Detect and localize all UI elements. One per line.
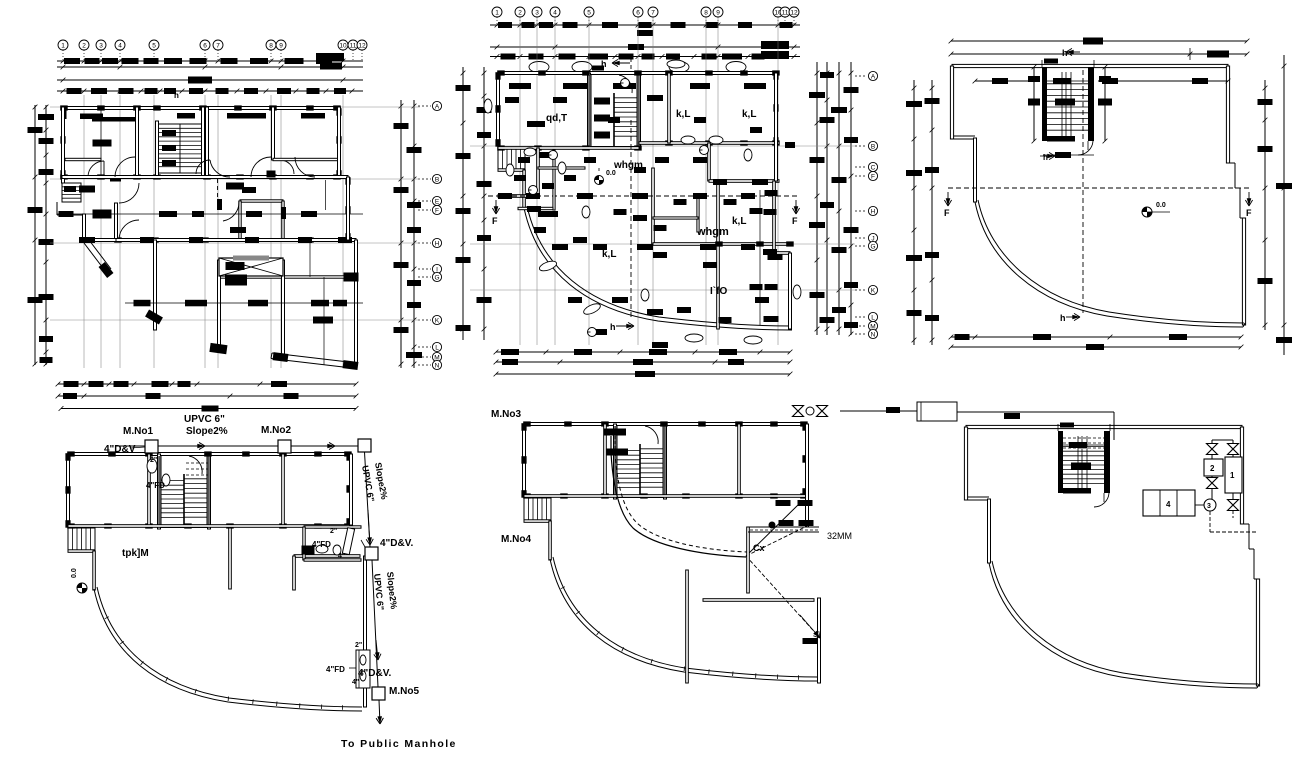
svg-text:A: A	[435, 103, 440, 110]
plan A top room door arcs	[88, 161, 104, 177]
building entry stair	[498, 147, 525, 169]
plan D drain pipe to M5	[372, 560, 378, 687]
svg-text:4": 4"	[352, 679, 359, 686]
plan A entrance blob cluster	[79, 186, 95, 193]
plan D vertical drain pipe right	[365, 452, 371, 547]
svg-text:G: G	[870, 243, 875, 250]
plan A entry stair left	[62, 183, 81, 202]
manhole M.No3 top-right of plan D	[358, 439, 371, 452]
svg-text:G: G	[434, 274, 439, 281]
svg-text:F: F	[871, 173, 875, 180]
svg-text:4": 4"	[338, 553, 345, 560]
plan A right wall upper	[347, 177, 350, 240]
plan A lower-left diagonal stair	[84, 243, 106, 272]
svg-text:F: F	[792, 216, 798, 226]
plan A interior wall x137	[136, 107, 139, 177]
svg-text:2": 2"	[330, 528, 337, 535]
plan B top balcony fixtures	[529, 62, 549, 73]
svg-text:B: B	[871, 143, 875, 150]
building left lower wall	[67, 550, 69, 551]
svg-text:M.No2: M.No2	[261, 425, 291, 436]
plan A wall y240 with blobs	[116, 239, 356, 242]
svg-text:F: F	[435, 207, 439, 214]
svg-text:H: H	[435, 240, 440, 247]
plan B section line F-F dashed	[488, 195, 800, 197]
svg-text:tpk]M: tpk]M	[122, 548, 149, 559]
building curved wall	[524, 208, 792, 330]
legend line	[840, 410, 917, 412]
plan A bottom dimension row 2	[58, 395, 356, 397]
plan F supply line	[957, 411, 1114, 413]
building wall piers	[67, 451, 75, 456]
svg-text:C: C	[871, 164, 876, 171]
terrace stair door arc	[1094, 493, 1109, 507]
svg-text:M.No3: M.No3	[491, 409, 521, 420]
plan E building outline	[521, 421, 820, 683]
svg-text:E: E	[435, 198, 440, 205]
building curve railing ticks	[561, 587, 565, 589]
plan A mid horizontal wall	[62, 176, 348, 179]
plan A column grid lines vertical	[83, 95, 85, 368]
plan F tank 1	[1225, 457, 1242, 493]
plan E junction blobs	[776, 500, 791, 506]
plan A veranda columns	[154, 240, 157, 330]
plan F pipe connections	[1211, 455, 1213, 459]
building wall piers	[523, 421, 531, 426]
terrace stair dashed steps	[1063, 437, 1104, 439]
svg-text:h: h	[1043, 153, 1048, 162]
terrace stair side dims	[1033, 67, 1035, 141]
plan B top wall fill blobs	[509, 83, 531, 89]
plan A bottom dimension row 3	[61, 408, 356, 410]
plan B column grid lines vertical	[519, 17, 521, 345]
building interior variant B	[639, 142, 779, 145]
svg-text:0.0: 0.0	[71, 568, 78, 578]
svg-text:4"FD: 4"FD	[326, 665, 345, 674]
building outer wall left	[67, 454, 70, 527]
building outer wall left	[497, 73, 500, 146]
building stair shaft	[158, 454, 161, 529]
manhole M.No4	[365, 547, 378, 560]
building interior variant E	[604, 424, 607, 496]
plan A outer wall left	[62, 107, 65, 183]
plan A door arcs mid	[115, 157, 135, 177]
plan B building outline	[495, 70, 792, 330]
plan D level marker	[77, 583, 87, 593]
plan A room sill walls y159	[65, 158, 101, 160]
plan B furniture blobs	[505, 97, 519, 103]
plan B plumbing fixtures	[524, 148, 536, 156]
svg-text:4: 4	[553, 9, 557, 16]
svg-text:4: 4	[1166, 500, 1171, 509]
plan B right grid bubbles	[868, 71, 877, 80]
svg-text:10: 10	[339, 42, 347, 49]
svg-text:3: 3	[99, 42, 103, 49]
terrace stair dim blobs	[1047, 80, 1088, 82]
svg-text:2": 2"	[355, 642, 362, 649]
plan B inner dim chain x760	[759, 190, 761, 325]
svg-text:9: 9	[279, 42, 283, 49]
svg-text:2: 2	[1210, 464, 1215, 473]
svg-text:6: 6	[636, 9, 640, 16]
plan D stair dashes upper	[186, 462, 208, 464]
terrace outer wall left	[964, 427, 967, 500]
building outer wall top	[524, 423, 805, 426]
svg-text:12: 12	[790, 9, 798, 16]
plan E right room walls	[747, 527, 750, 593]
plan B grid bubbles top	[492, 7, 502, 17]
plan B top dimension row 3	[490, 56, 800, 58]
plan A outer wall top	[62, 107, 340, 110]
plan D WC cluster mid-right	[304, 526, 361, 528]
building curved wall	[550, 559, 818, 681]
plan B mid row blobs	[552, 244, 568, 250]
svg-text:7: 7	[216, 42, 220, 49]
manhole M.No1	[145, 440, 158, 453]
svg-text:4"D&V.: 4"D&V.	[358, 668, 391, 679]
svg-text:h: h	[1062, 48, 1068, 58]
svg-text:A: A	[871, 73, 876, 80]
legend symbols XoX	[793, 406, 804, 417]
svg-text:qd,T: qd,T	[546, 113, 567, 124]
building outer wall left	[523, 424, 526, 497]
plan D drain header line	[115, 445, 358, 447]
svg-text:M.No1: M.No1	[123, 426, 153, 437]
plan C level marker	[1142, 207, 1152, 217]
plan A left step-out wall	[56, 202, 58, 215]
plan A stair shaft	[156, 121, 159, 177]
svg-text:8: 8	[269, 42, 273, 49]
svg-text:9: 9	[716, 9, 720, 16]
svg-text:L: L	[871, 314, 875, 321]
plan F tank 2	[1204, 459, 1223, 476]
svg-text:F: F	[944, 208, 950, 218]
terrace outer wall top	[952, 64, 1228, 67]
building stair shaft	[614, 424, 617, 499]
plan A left dimension chains	[34, 105, 36, 365]
plan C stair shaft	[1028, 59, 1112, 159]
plan A top dimension row 3	[57, 79, 363, 81]
svg-text:I`fO: I`fO	[710, 286, 727, 297]
plan A lower-left rooms	[115, 203, 118, 240]
svg-text:7: 7	[651, 9, 655, 16]
plan C bottom dimension line	[951, 336, 1241, 338]
svg-text:k,L: k,L	[676, 109, 690, 120]
plan A top wall fill segments	[80, 114, 103, 120]
plan B top dimension row 1	[490, 24, 800, 26]
plan A bottom-right room divider	[309, 240, 311, 277]
plan B door knob circles	[529, 186, 538, 195]
terrace stair shaft	[1058, 431, 1063, 493]
plan A interior wall x273	[272, 107, 275, 160]
plan A wall x207	[206, 107, 209, 177]
svg-text:n: n	[174, 91, 179, 100]
plan A wall piers	[60, 105, 67, 110]
plan C dashed section lines	[948, 187, 1249, 189]
plan D upper bathroom fixtures	[147, 459, 157, 473]
plan C left dimension chains	[913, 80, 915, 345]
plan A right grid bubbles	[432, 101, 441, 110]
terrace stair door arc	[1078, 141, 1093, 155]
building left lower wall	[497, 169, 499, 170]
svg-text:32MM: 32MM	[827, 531, 852, 541]
plan B grid lines horizontal	[470, 145, 855, 147]
svg-text:3: 3	[535, 9, 539, 16]
svg-text:4"D&V: 4"D&V	[104, 444, 136, 455]
plan A hall center room box	[240, 200, 283, 202]
svg-text:8: 8	[704, 9, 708, 16]
svg-text:2: 2	[82, 42, 86, 49]
plan C far right page chain	[1283, 55, 1285, 355]
building left lower wall	[523, 520, 525, 521]
plan A top dimension row 2	[57, 66, 363, 68]
plan B section line h-h dashed vertical	[630, 120, 632, 320]
svg-text:h: h	[610, 322, 616, 332]
plan C right dimension chain	[1264, 80, 1266, 330]
svg-text:L: L	[435, 344, 439, 351]
building outer wall top	[498, 72, 779, 75]
svg-text:6: 6	[203, 42, 207, 49]
plan F valves top	[1207, 444, 1218, 455]
terrace outer wall top	[966, 425, 1242, 428]
svg-text:4: 4	[118, 42, 122, 49]
plan F pump circle 3	[1204, 499, 1216, 511]
plan F terrace outline	[964, 425, 1259, 688]
plan A bottom tilted parapet	[272, 353, 357, 363]
svg-text:5: 5	[152, 42, 156, 49]
svg-text:1: 1	[61, 42, 65, 49]
plan B mid bathroom walls	[553, 150, 555, 210]
plan E drain blobs near stair	[604, 429, 626, 436]
svg-text:K: K	[435, 317, 440, 324]
svg-text:2": 2"	[150, 457, 157, 464]
building right wall variant D	[350, 454, 353, 525]
terrace outer wall left	[950, 66, 953, 139]
plan A bottom dimension row 1	[58, 383, 356, 385]
building curve railing ticks	[105, 617, 109, 619]
plan E drain curve	[611, 453, 746, 557]
svg-text:11: 11	[782, 9, 789, 16]
plan A top dimension row 4	[57, 90, 363, 92]
building outer wall top	[68, 453, 349, 456]
svg-text:h: h	[601, 59, 607, 69]
building entry stair	[524, 498, 551, 520]
svg-text:M.No4: M.No4	[501, 534, 531, 545]
plan D building outline	[65, 451, 366, 711]
plan F stair shaft	[1058, 423, 1110, 508]
svg-text:F: F	[492, 216, 498, 226]
plan F valve lower	[1228, 500, 1239, 511]
plan B level marker	[595, 176, 604, 185]
svg-text:B: B	[435, 176, 439, 183]
plan A right dimension chains	[400, 100, 402, 368]
plan A right wall lower	[355, 240, 358, 363]
building right wall variant E	[806, 424, 809, 527]
svg-text:Slope2%: Slope2%	[186, 426, 228, 437]
svg-text:K: K	[871, 287, 876, 294]
svg-text:To Public Manhole: To Public Manhole	[341, 738, 457, 750]
svg-text:4"FD: 4"FD	[312, 540, 331, 549]
plan A interior line x101	[100, 110, 102, 177]
water meter box	[917, 402, 957, 421]
svg-text:N: N	[435, 362, 440, 369]
building interior variant D	[148, 454, 151, 526]
svg-text:12: 12	[358, 42, 366, 49]
plan F pump box 4	[1143, 490, 1195, 516]
svg-text:F: F	[1246, 208, 1252, 218]
svg-text:M.No5: M.No5	[389, 686, 419, 697]
plan C top dimension line	[951, 40, 1247, 42]
building wall piers	[497, 70, 505, 75]
building curved wall	[94, 589, 362, 711]
terrace stair dim blobs	[1063, 444, 1104, 446]
plan A top dimension row 1	[57, 60, 363, 62]
terrace curved parapet	[989, 563, 1257, 688]
svg-text:k,L: k,L	[732, 216, 746, 227]
svg-text:k,L: k,L	[602, 249, 616, 260]
plan A column grid bubbles top	[58, 40, 68, 50]
manhole M.No2	[278, 440, 291, 453]
terrace stair shaft	[1042, 67, 1047, 141]
plan D bottom fixture box	[356, 650, 370, 688]
svg-text:5: 5	[587, 9, 591, 16]
building interior walls	[498, 147, 639, 150]
svg-text:1: 1	[495, 9, 499, 16]
svg-text:4"FD: 4"FD	[146, 481, 165, 490]
svg-text:0.0: 0.0	[1156, 202, 1166, 209]
plan D outfall arrow	[379, 700, 380, 724]
plan A inner dim row y303	[125, 302, 363, 304]
svg-text:2: 2	[518, 9, 522, 16]
terrace outer wall right with steps	[1226, 66, 1229, 163]
building stair shaft	[588, 73, 591, 148]
svg-text:whgm: whgm	[696, 226, 729, 238]
terrace curved parapet	[975, 202, 1243, 327]
building right wall variant B	[775, 73, 778, 181]
plan A crossed box	[219, 258, 283, 276]
svg-text:h: h	[1060, 313, 1066, 323]
svg-text:H: H	[871, 208, 876, 215]
plan A grid lines horizontal	[50, 106, 420, 108]
svg-text:0.0: 0.0	[606, 170, 616, 177]
manhole M.No5	[372, 687, 385, 700]
plan A inner dim row y214	[57, 213, 363, 215]
svg-text:1: 1	[1230, 471, 1235, 480]
plan A right outer wall upper	[338, 107, 341, 177]
building entry stair	[68, 528, 95, 550]
svg-text:UPVC 6": UPVC 6"	[184, 414, 225, 425]
plan B bottom dimension rows	[496, 351, 790, 353]
plan F valve mid	[1207, 478, 1218, 489]
svg-text:N: N	[871, 331, 876, 338]
plan B right dimension chains	[816, 62, 818, 335]
svg-text:11: 11	[350, 42, 357, 49]
plan B dashed row blobs	[498, 193, 512, 199]
terrace outer wall right with steps	[1240, 427, 1243, 524]
plan B top dimension row 2	[490, 46, 800, 48]
svg-text:k,L: k,L	[742, 109, 756, 120]
plan B left dimension chains	[462, 67, 464, 340]
plan C inner top dim	[975, 80, 1033, 82]
svg-text:4"D&V.: 4"D&V.	[380, 538, 413, 549]
svg-text:3: 3	[1207, 503, 1211, 510]
plan C terrace outline	[950, 64, 1245, 327]
plan F dashed pipes	[1209, 511, 1211, 532]
